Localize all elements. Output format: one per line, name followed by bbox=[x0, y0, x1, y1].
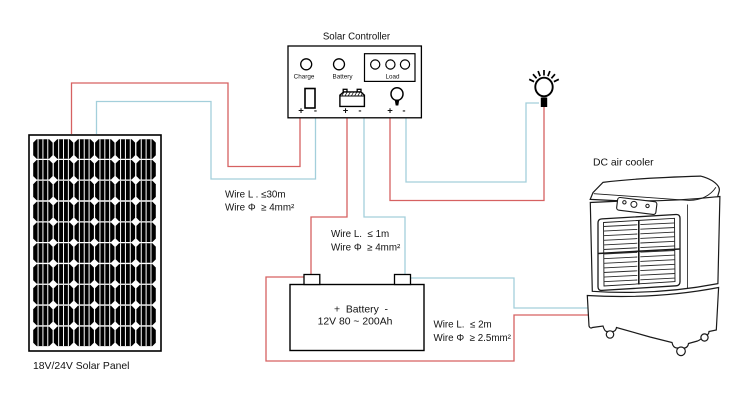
cooler caster 2 bbox=[677, 347, 686, 356]
cooler lid top face front edge bbox=[594, 187, 716, 200]
wire red LOAD+ : controller to lamp bbox=[390, 107, 544, 201]
load group box bbox=[365, 54, 416, 82]
controller U1 box bbox=[288, 46, 421, 118]
cooler side edge bbox=[687, 205, 689, 289]
LED Load 1 bbox=[371, 60, 380, 69]
svg-text:Wire Φ ≥ 4mm²: Wire Φ ≥ 4mm² bbox=[225, 203, 295, 214]
svg-text:Solar Controller: Solar Controller bbox=[323, 32, 391, 43]
battery terminal - bbox=[395, 275, 411, 285]
cooler panel knob 2 bbox=[631, 201, 637, 207]
wire red BAT+ : controller to battery + terminal bbox=[311, 118, 347, 274]
wire cyan BAT- : controller to battery - terminal bbox=[364, 118, 405, 274]
cooler control panel bbox=[616, 197, 657, 215]
cooler grille center post bbox=[638, 220, 640, 284]
icon solar panel port bbox=[305, 89, 315, 109]
wire cyan LOAD- : controller to lamp bbox=[406, 103, 539, 182]
wire cyan PV- : panel to controller charge - bbox=[97, 102, 316, 180]
svg-text:Load: Load bbox=[385, 73, 400, 80]
cooler grille mid rail bbox=[598, 249, 680, 254]
battery BT1 body bbox=[290, 285, 424, 351]
label wire spec 1 bbox=[225, 189, 295, 213]
cooler panel knob 3 bbox=[646, 204, 649, 207]
wire red battery + to cooler bbox=[266, 277, 591, 361]
svg-text:Wire Φ ≥ 2.5mm²: Wire Φ ≥ 2.5mm² bbox=[434, 333, 512, 344]
svg-text:+: + bbox=[298, 106, 304, 117]
cooler M1 bbox=[587, 176, 720, 356]
LED Load 3 bbox=[400, 60, 409, 69]
battery terminal + bbox=[304, 275, 320, 285]
svg-text:DC air cooler: DC air cooler bbox=[593, 158, 654, 169]
svg-text:-: - bbox=[358, 106, 361, 117]
svg-text:Wire Φ ≥ 4mm²: Wire Φ ≥ 4mm² bbox=[331, 243, 401, 254]
cooler body bbox=[590, 197, 720, 293]
cooler panel knob 1 bbox=[623, 201, 626, 204]
svg-text:-: - bbox=[314, 106, 317, 117]
lamp LP1 bulb bbox=[535, 78, 552, 107]
LED Load 2 bbox=[386, 60, 395, 69]
label wire spec 3 bbox=[434, 320, 512, 345]
svg-text:+: + bbox=[387, 106, 393, 117]
svg-text:Wire L. ≤ 2m: Wire L. ≤ 2m bbox=[434, 320, 492, 331]
icon lamp port bbox=[391, 88, 403, 106]
svg-text:Wire L . ≤30m: Wire L . ≤30m bbox=[225, 189, 286, 200]
wire cyan battery - to cooler bbox=[411, 278, 591, 308]
svg-text:Charge: Charge bbox=[294, 73, 315, 80]
cooler grille inner frame bbox=[604, 218, 676, 286]
label wire spec 2 bbox=[331, 229, 401, 254]
icon battery port bbox=[340, 89, 365, 106]
svg-text:12V 80 ~ 200Ah: 12V 80 ~ 200Ah bbox=[318, 317, 393, 328]
svg-text:18V/24V Solar Panel: 18V/24V Solar Panel bbox=[33, 361, 129, 372]
cooler grille slats bbox=[604, 223, 676, 282]
solar panel PV1 frame bbox=[29, 135, 161, 351]
svg-text:-: - bbox=[402, 106, 405, 117]
LED Charge bbox=[301, 59, 312, 70]
cooler lid bbox=[590, 176, 719, 201]
wire red PV+ : panel to controller charge + bbox=[72, 83, 301, 167]
lamp rays bbox=[529, 70, 559, 82]
svg-text:Wire L. ≤ 1m: Wire L. ≤ 1m bbox=[331, 229, 389, 240]
cooler grille frame bbox=[598, 214, 680, 290]
svg-text:+ Battery -: + Battery - bbox=[334, 305, 388, 316]
LED Battery bbox=[334, 59, 345, 70]
svg-text:Battery: Battery bbox=[333, 73, 354, 80]
cooler caster 3 bbox=[701, 334, 708, 341]
svg-text:+: + bbox=[343, 106, 349, 117]
cooler caster 1 bbox=[606, 331, 613, 338]
cooler lower tank bbox=[587, 288, 718, 349]
